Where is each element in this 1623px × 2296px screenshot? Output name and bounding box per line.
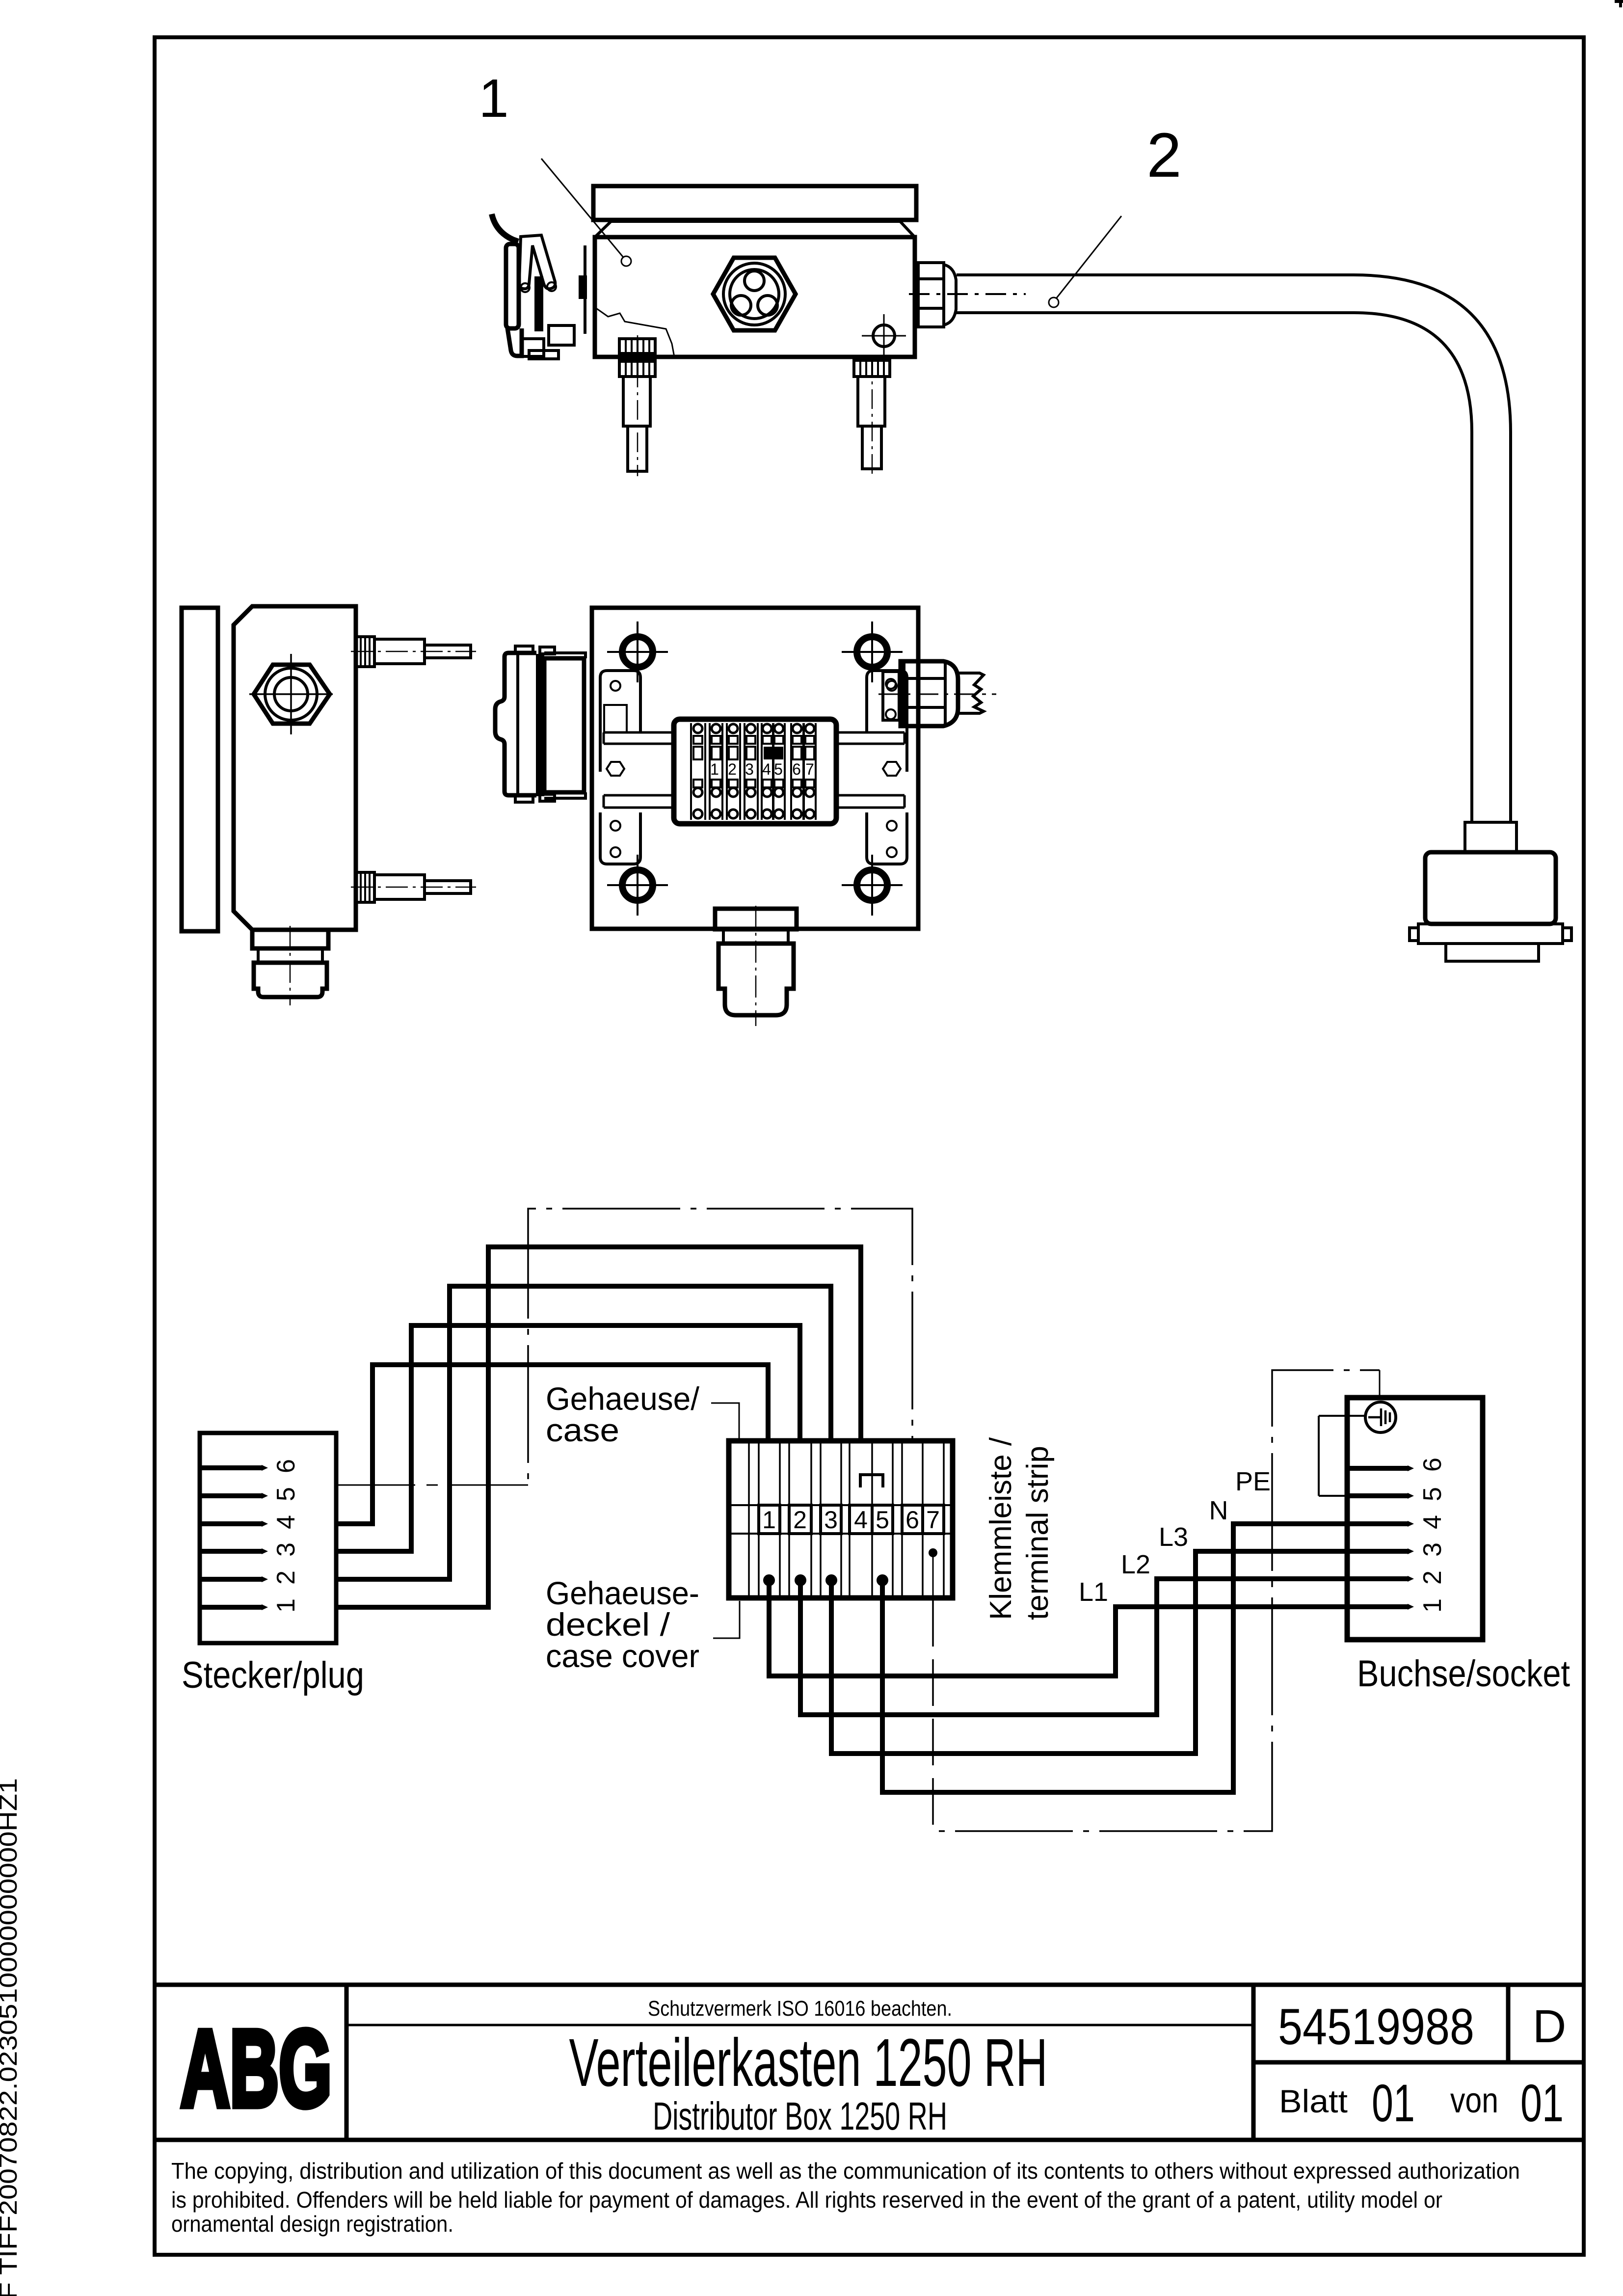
svg-text:2: 2: [1418, 1570, 1447, 1585]
svg-text:L3: L3: [1159, 1522, 1188, 1552]
svg-text:Gehaeuse/: Gehaeuse/: [546, 1380, 700, 1417]
svg-text:L2: L2: [1121, 1550, 1150, 1579]
svg-text:5: 5: [774, 760, 783, 778]
svg-text:1: 1: [1418, 1598, 1447, 1613]
svg-text:7: 7: [805, 760, 814, 778]
svg-text:case cover: case cover: [546, 1638, 699, 1674]
svg-text:ornamental design registration: ornamental design registration.: [171, 2211, 453, 2237]
svg-text:Stecker/plug: Stecker/plug: [182, 1654, 364, 1696]
svg-text:4: 4: [1418, 1515, 1447, 1529]
svg-text:5: 5: [272, 1487, 300, 1501]
svg-text:01: 01: [1520, 2073, 1564, 2133]
svg-text:4: 4: [854, 1506, 868, 1534]
svg-text:2: 2: [272, 1570, 300, 1585]
svg-text:Verteilerkasten 1250 RH: Verteilerkasten 1250 RH: [569, 2025, 1048, 2101]
svg-text:1: 1: [710, 760, 719, 778]
svg-text:N: N: [1209, 1496, 1228, 1525]
svg-text:3: 3: [745, 760, 754, 778]
svg-text:F TIFF20070822.023051000000000: F TIFF20070822.0230510000000000HZ1: [0, 1778, 22, 2296]
svg-text:6: 6: [272, 1459, 300, 1473]
svg-text:5: 5: [876, 1506, 889, 1534]
svg-text:3: 3: [1418, 1542, 1447, 1557]
svg-text:case: case: [546, 1412, 619, 1448]
svg-text:PE: PE: [1235, 1467, 1271, 1496]
svg-text:4: 4: [272, 1515, 300, 1529]
svg-text:Distributor Box 1250 RH: Distributor Box 1250 RH: [653, 2094, 947, 2138]
svg-text:deckel /: deckel /: [546, 1606, 670, 1643]
svg-text:3: 3: [824, 1506, 838, 1534]
svg-text:terminal strip: terminal strip: [1021, 1446, 1055, 1620]
svg-text:4: 4: [762, 760, 771, 778]
svg-text:1: 1: [762, 1506, 776, 1534]
svg-text:Buchse/socket: Buchse/socket: [1357, 1653, 1570, 1695]
svg-text:6: 6: [905, 1506, 919, 1534]
svg-text:The copying, distribution and: The copying, distribution and utilizatio…: [171, 2158, 1520, 2184]
svg-text:D: D: [1533, 2000, 1567, 2053]
svg-text:2: 2: [728, 760, 737, 778]
svg-text:1: 1: [479, 68, 508, 129]
svg-text:54519988: 54519988: [1278, 1999, 1474, 2055]
svg-text:Gehaeuse-: Gehaeuse-: [546, 1575, 699, 1611]
svg-text:7: 7: [926, 1506, 940, 1534]
svg-text:Schutzvermerk ISO 16016 beacht: Schutzvermerk ISO 16016 beachten.: [648, 1997, 952, 2021]
svg-text:6: 6: [792, 760, 801, 778]
svg-text:5: 5: [1418, 1487, 1447, 1501]
svg-text:Klemmleiste /: Klemmleiste /: [984, 1437, 1018, 1620]
svg-text:ABG: ABG: [181, 2008, 332, 2130]
svg-text:2: 2: [1146, 120, 1181, 190]
svg-text:L1: L1: [1079, 1577, 1108, 1607]
svg-text:3: 3: [272, 1542, 300, 1557]
svg-text:Blatt: Blatt: [1279, 2083, 1348, 2119]
svg-text:1: 1: [272, 1598, 300, 1613]
svg-text:01: 01: [1372, 2073, 1415, 2133]
svg-text:6: 6: [1418, 1458, 1447, 1472]
svg-text:von: von: [1450, 2081, 1498, 2120]
svg-text:is prohibited. Offenders will: is prohibited. Offenders will be held li…: [171, 2187, 1442, 2213]
svg-text:2: 2: [793, 1506, 807, 1534]
